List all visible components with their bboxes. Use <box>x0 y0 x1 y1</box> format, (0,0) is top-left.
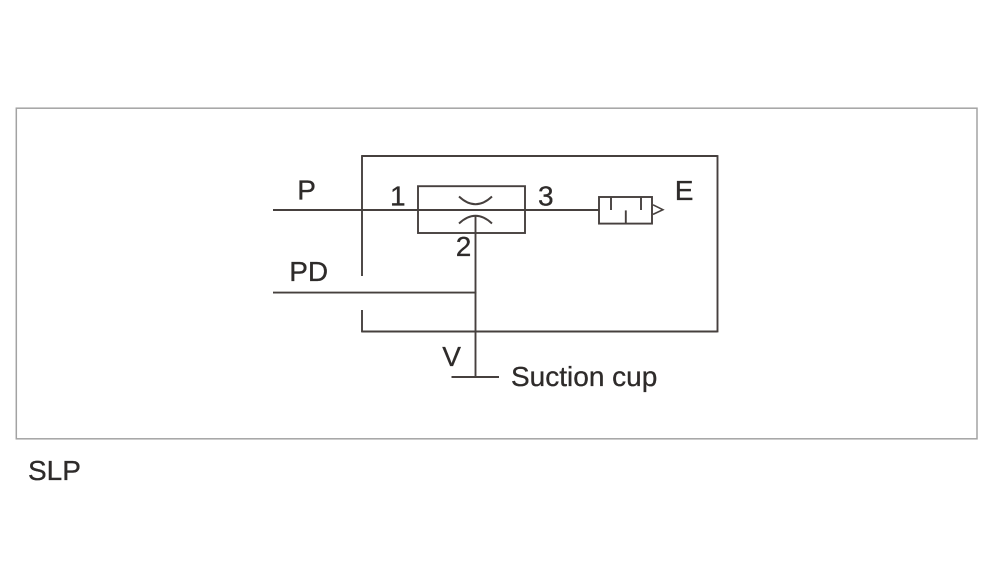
svg-text:1: 1 <box>390 181 406 212</box>
svg-text:E: E <box>675 175 694 206</box>
wire vacuum drop line from port 2 to suction cup <box>475 216 477 377</box>
svg-text:3: 3 <box>538 181 554 212</box>
silencer internal baffle centre (from bottom) <box>625 210 627 223</box>
silencer internal baffle right (from top) <box>640 197 642 210</box>
wire PD pilot line <box>273 292 476 294</box>
ejector venturi body rectangle <box>418 186 525 233</box>
svg-text:2: 2 <box>456 231 472 262</box>
svg-text:Suction cup: Suction cup <box>511 361 657 392</box>
wire P supply line to silencer <box>273 209 599 211</box>
schematic enclosure box right edge <box>717 155 719 332</box>
schematic enclosure box left edge upper segment <box>361 155 363 276</box>
ejector nozzle lower arc <box>459 216 492 224</box>
svg-text:SLP: SLP <box>28 455 81 486</box>
schematic enclosure box bottom edge <box>362 331 718 333</box>
exhaust arrow chevron <box>653 205 663 215</box>
svg-text:P: P <box>297 175 316 206</box>
silencer internal baffle left (from top) <box>610 197 612 210</box>
svg-text:PD: PD <box>289 256 328 287</box>
ejector nozzle upper arc <box>459 197 492 205</box>
schematic enclosure box left edge lower segment <box>361 310 363 332</box>
suction cup bar symbol <box>452 376 500 378</box>
silencer body rectangle <box>599 197 652 224</box>
schematic enclosure box top edge <box>362 155 718 157</box>
svg-text:V: V <box>442 341 461 372</box>
outer frame border <box>16 108 977 439</box>
